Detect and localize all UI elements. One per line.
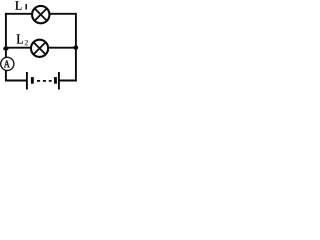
label L2 subscript 2 [25,40,29,45]
wire: ammeter bottom to lower-left corner [5,70,7,81]
label L2 [17,34,23,43]
battery left short thick plate [31,77,34,84]
lamp L1 [32,6,49,23]
wire: top horizontal from left corner to right corner [5,13,76,15]
battery left long plate [26,72,28,90]
label L1 [15,1,21,10]
battery pack B1 [27,72,59,90]
wire: right vertical from top corner to bottom corner [75,13,77,82]
label L1 subscript 1 [25,4,27,10]
node: junction dot on right wire [73,45,78,49]
wire: left vertical from top corner down to ammeter [5,13,7,58]
wire: middle branch horizontal (L2 row) [6,47,76,49]
lamp L2 [31,40,48,57]
ammeter A1 [1,57,14,70]
battery omitted-cells dashes [37,80,52,82]
wire: bottom horizontal right segment from battery to corner [59,80,76,82]
battery right long plate [58,72,60,90]
battery right short thick plate [54,77,57,84]
node: junction dot on left wire [3,46,8,50]
wire: bottom horizontal left segment to battery [5,80,27,82]
